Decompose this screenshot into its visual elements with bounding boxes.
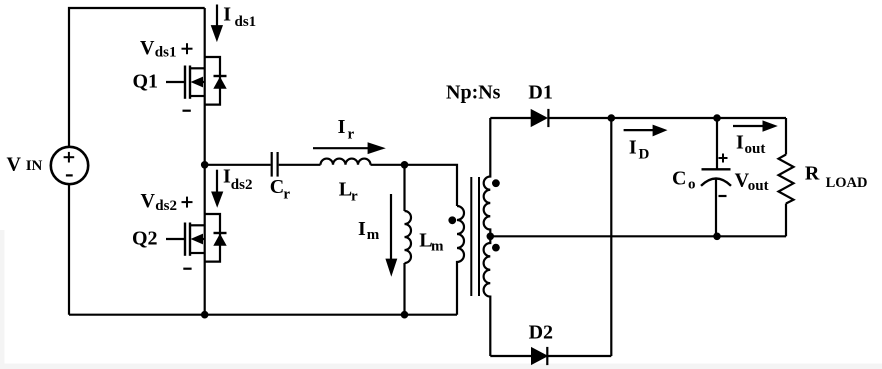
node dot Co top	[713, 114, 721, 122]
node dot Co bottom	[713, 233, 721, 241]
svg-text:C: C	[270, 176, 284, 198]
svg-text:ds1: ds1	[235, 14, 257, 30]
mosfet Q1 body stub with arrow	[196, 81, 205, 83]
bottom edge scan band	[0, 364, 882, 369]
minus sign below Q2	[183, 268, 191, 270]
svg-text:V: V	[7, 154, 22, 176]
current arrow Ids2	[216, 170, 218, 193]
node dot Lm top	[401, 161, 409, 169]
mosfet Q1 channel bar	[189, 66, 191, 99]
svg-text:D: D	[639, 147, 650, 163]
svg-text:D2: D2	[529, 322, 553, 344]
svg-text:m: m	[431, 239, 444, 255]
node dot Q2 source bottom	[201, 311, 209, 319]
wire mid rail left of Cr	[205, 164, 271, 166]
label Im	[358, 218, 380, 243]
wire rectifier vertical	[610, 118, 612, 356]
transformer core bars	[471, 177, 479, 296]
label Lm	[419, 230, 444, 255]
mosfet Q1 source stub	[190, 95, 205, 97]
capacitor Co curved plate	[701, 179, 731, 186]
node dot half-bridge midpoint	[201, 161, 209, 169]
svg-text:I: I	[223, 4, 231, 26]
svg-text:ds1: ds1	[155, 44, 177, 60]
svg-text:ds2: ds2	[155, 198, 177, 214]
capacitor Co lead top	[716, 118, 718, 169]
body diode D-Q2 symbol	[214, 232, 227, 234]
svg-text:R: R	[805, 163, 820, 185]
svg-text:I: I	[223, 166, 231, 188]
mosfet Q2 channel bar	[189, 223, 191, 256]
label RLOAD	[805, 163, 868, 191]
mosfet Q2 gate plate	[184, 223, 186, 256]
svg-text:ds2: ds2	[231, 177, 253, 193]
label Vds2	[141, 190, 177, 214]
wire center tap rail	[490, 235, 786, 237]
svg-text:r: r	[348, 127, 355, 143]
plus sign Vds1	[182, 43, 193, 54]
inductor Lr	[321, 159, 371, 165]
label ID	[629, 137, 650, 163]
node dot D1 cathode junction	[608, 114, 616, 122]
VIN minus sign	[66, 174, 73, 176]
diode D1	[531, 109, 548, 127]
svg-text:D1: D1	[528, 82, 552, 104]
transformer primary phase dot	[448, 216, 456, 224]
svg-text:I: I	[736, 132, 744, 154]
label Ids1	[223, 4, 256, 30]
svg-text:V: V	[140, 37, 155, 59]
transformer primary winding	[457, 206, 464, 315]
wire D2 bottom rail	[490, 355, 531, 357]
inductor Lm branch	[403, 165, 405, 211]
svg-text:out: out	[745, 141, 766, 157]
resistor RLOAD	[785, 118, 787, 155]
transformer secondary lower phase dot	[492, 244, 500, 252]
svg-text:IN: IN	[26, 158, 43, 174]
transformer secondary lower winding	[484, 236, 491, 356]
svg-text:I: I	[629, 137, 637, 159]
wire D1 to output top rail	[548, 117, 786, 119]
label Lr	[339, 178, 358, 204]
mosfet Q1 gate lead	[166, 81, 185, 83]
mosfet Q2 gate lead	[166, 238, 185, 240]
mosfet Q2 drain stub	[190, 224, 205, 226]
wire left rail bottom	[68, 184, 70, 314]
label Vout	[735, 170, 769, 195]
svg-text:o: o	[688, 177, 696, 193]
wire Cr to Lr	[279, 164, 321, 166]
svg-text:m: m	[367, 227, 380, 243]
capacitor Co top plate	[702, 168, 731, 170]
node dot Lm bottom	[401, 311, 409, 319]
body diode D-Q1 symbol	[214, 75, 227, 77]
wire top-left loop (left rail top + top rail)	[69, 8, 205, 147]
capacitor Co lead bottom	[715, 179, 717, 236]
minus sign below Q1	[183, 110, 191, 112]
diode D2	[531, 347, 548, 365]
body diode D-Q2 branch	[205, 214, 220, 262]
label Vds1	[140, 37, 176, 61]
svg-text:C: C	[672, 168, 686, 190]
mosfet Q2 source stub	[190, 252, 205, 254]
voltage source VIN	[51, 147, 88, 184]
wire half-bridge vertical (Q1 drain to Q2 source)	[204, 8, 206, 315]
mosfet Q1 drain stub	[190, 67, 205, 69]
transformer secondary upper winding	[484, 118, 491, 236]
svg-text:Q2: Q2	[132, 228, 158, 250]
svg-text:I: I	[338, 116, 346, 138]
wire bottom rail	[69, 314, 457, 316]
wire Lr to Lm node to primary	[371, 165, 458, 206]
label Ir	[338, 116, 355, 143]
svg-text:r: r	[351, 188, 358, 204]
current arrow Im	[390, 194, 392, 260]
label Ids2	[223, 166, 252, 193]
svg-text:I: I	[358, 218, 366, 240]
svg-text:LOAD: LOAD	[826, 175, 868, 191]
label VIN	[7, 154, 43, 176]
mosfet Q2 body stub with arrow	[196, 238, 205, 240]
current arrow Iout	[733, 125, 764, 127]
svg-text:r: r	[283, 187, 290, 203]
transformer secondary upper phase dot	[492, 179, 500, 187]
wire secondary top rail to D1	[490, 117, 531, 119]
svg-text:Q1: Q1	[133, 71, 159, 93]
capacitor Cr	[272, 152, 278, 177]
plus sign Vds2	[182, 197, 193, 208]
svg-text:V: V	[141, 190, 156, 212]
VIN plus sign	[64, 152, 75, 163]
node dot center tap	[487, 233, 495, 241]
left edge scan band	[0, 230, 5, 369]
mosfet Q1 gate plate	[184, 66, 186, 99]
label Co	[672, 168, 696, 193]
wire D2 to rectifier vertical	[547, 355, 611, 357]
body diode D-Q1 branch	[205, 57, 220, 105]
current arrow Ids1	[216, 5, 218, 28]
current arrow Ir	[313, 147, 369, 149]
label Cr	[270, 176, 291, 203]
minus sign Co	[719, 195, 727, 197]
svg-text:out: out	[748, 178, 769, 194]
svg-text:Np:Ns: Np:Ns	[446, 81, 501, 103]
label Iout	[736, 132, 765, 158]
current arrow ID	[624, 129, 654, 131]
plus sign Co	[719, 154, 728, 163]
